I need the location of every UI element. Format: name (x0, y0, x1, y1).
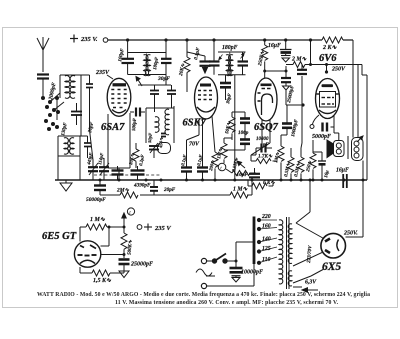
capacitor 25000pF (6E5) (123, 253, 126, 256)
transformer primary coil (279, 220, 283, 284)
T2 tuning arrows (219, 53, 245, 60)
resistor 500K (vertical) (121, 227, 127, 258)
svg-text:30pF: 30pF (157, 76, 170, 82)
mains wires (236, 242, 253, 268)
capacitor 100pF (diode) (232, 112, 250, 130)
tube 6SA7 (107, 78, 131, 116)
capacitor (antenna tuning) (81, 75, 93, 160)
ground (6E5) (119, 271, 129, 278)
T2 right capacitor (238, 62, 249, 66)
terminal circle B+ (103, 38, 108, 43)
svg-text:100p: 100p (238, 130, 249, 136)
svg-text:1.7K∿: 1.7K∿ (258, 154, 273, 160)
dashed gang line (94, 174, 160, 176)
band switch contacts (antenna) (41, 96, 60, 117)
svg-text:2 K∿: 2 K∿ (322, 45, 338, 51)
power transformer primary bar (253, 217, 256, 265)
resistor 250ohm (6V6 cathode) (310, 140, 316, 180)
svg-text:16μF: 16μF (336, 168, 349, 174)
svg-text:6X5: 6X5 (322, 261, 341, 273)
AC symbol (196, 269, 215, 276)
svg-text:2 M∿: 2 M∿ (291, 57, 307, 63)
band switch contacts (osc) (44, 119, 59, 131)
capacitor 2000pF (antenna) (37, 75, 49, 97)
svg-text:10000: 10000 (256, 137, 269, 142)
svg-text:6SA7: 6SA7 (101, 122, 125, 133)
capacitor 20pF (AVC) (150, 180, 158, 195)
mains terminal 2 (201, 283, 206, 288)
wire: B+ top bus (108, 39, 353, 41)
svg-text:WATT RADIO - Mod. 50 e W/50 AR: WATT RADIO - Mod. 50 e W/50 ARGO - Medio… (37, 292, 370, 298)
svg-text:1 M∿: 1 M∿ (233, 187, 248, 193)
svg-text:110: 110 (262, 257, 270, 263)
mains switch (201, 258, 206, 263)
6E5 wires (80, 227, 124, 273)
volume pot circled t (218, 163, 226, 171)
T1 right capacitor (161, 59, 172, 63)
capacitor 16pF (on bus) (249, 168, 260, 177)
svg-text:4390pF: 4390pF (133, 183, 151, 189)
terminal 235V (6E5) (137, 225, 142, 230)
resistor 6K (248, 180, 273, 189)
svg-text:11 V. Massima tensione anodica: 11 V. Massima tensione anodica 260 V. Co… (115, 300, 339, 306)
capacitor 500pF (osc grid) (130, 108, 145, 117)
oscillator coil L2 (58, 136, 80, 180)
capacitor 10000pF (line filter) (230, 268, 243, 282)
transformer core (286, 217, 288, 289)
svg-text:6V6: 6V6 (319, 53, 337, 64)
wire: AVC bus (100, 180, 252, 195)
capacitor (detector 2nd) (224, 130, 250, 150)
resistor 250K (vertical) (262, 40, 268, 78)
wires transformer to 6X5 (293, 180, 323, 287)
6SA7 pin box (108, 113, 130, 180)
resistor 0.5M b (298, 107, 304, 180)
resistor 1M (6V6 grid leak) (278, 135, 287, 180)
transformer HV secondary (288, 224, 292, 264)
svg-text:6E5 GT: 6E5 GT (42, 231, 77, 242)
svg-text:250V: 250V (331, 67, 346, 73)
svg-text:16pF: 16pF (237, 172, 249, 178)
svg-text:125: 125 (262, 246, 271, 252)
wires 6V6 node (302, 40, 327, 107)
svg-text:180pF: 180pF (222, 45, 238, 51)
output transformer (352, 138, 364, 161)
capacitor 16uF (cathode bypass) (313, 152, 326, 180)
svg-text:6 K∿: 6 K∿ (263, 180, 275, 186)
wire 6X5 cathode to bus (346, 180, 364, 237)
capacitor (6V6 grid) (297, 70, 307, 74)
resistor 20K (screen, vertical) (184, 40, 190, 92)
resistor 200ohm (6SK7 cathode) (212, 152, 218, 180)
svg-text:16μF: 16μF (268, 43, 281, 49)
capacitor 30pF (grid cap) (220, 75, 231, 100)
T2 left capacitor (209, 62, 220, 66)
speaker core line (347, 136, 349, 159)
antenna (37, 37, 49, 72)
resistor 1.5K (6E5 cathode) (92, 264, 124, 276)
tube 6SQ7 (255, 78, 277, 121)
volume pot track (226, 169, 256, 176)
capacitor (osc pad) (80, 136, 91, 158)
antenna coil L1 (60, 75, 81, 136)
capacitor 0.1uF (6SK7 cathode a) (181, 166, 192, 180)
resistor 50K (AVC) (229, 112, 235, 140)
capacitor (antenna padder mid) (71, 103, 82, 125)
tube 6V6 (316, 79, 340, 119)
transformer taps (257, 218, 261, 265)
osc trimmer (149, 143, 159, 158)
tube 6E5 GT (74, 241, 100, 267)
svg-text:5000pF: 5000pF (312, 134, 331, 140)
capacitor 25000pF (6SQ7 plate) (281, 71, 303, 105)
trimmer capacitor 114pF (99, 158, 109, 180)
oscillator coil assembly (146, 106, 174, 143)
right side verticals (353, 40, 367, 180)
6.3V arrow (302, 288, 318, 293)
svg-text:235 V: 235 V (154, 225, 171, 232)
resistor 1M (AVC vert) (221, 138, 232, 163)
svg-text:250V.: 250V. (343, 231, 358, 237)
svg-text:160: 160 (262, 224, 271, 230)
T2 coils (226, 52, 233, 76)
svg-text:50pF: 50pF (147, 133, 153, 143)
loudspeaker (327, 133, 344, 158)
tube 6X5 (321, 233, 346, 258)
caption text (37, 292, 370, 306)
svg-text:235 V.: 235 V. (80, 36, 98, 43)
resistor 20K (osc) (133, 143, 139, 168)
resistor 2K (plate load on bus) (322, 37, 343, 43)
capacitor 50000pF (94, 180, 106, 192)
trimmer capacitor 443pF (88, 160, 98, 180)
T1 coils (144, 55, 151, 76)
T1 left capacitor (100pF) (122, 59, 135, 63)
capacitor 0.1uF (6SK7 cathode b) (197, 166, 208, 180)
osc section oval (158, 143, 171, 154)
tube 6SK7 (195, 77, 218, 119)
svg-text:1,5 K∿: 1,5 K∿ (93, 278, 112, 284)
6SK7 pin wires (187, 116, 216, 166)
svg-text:6,3V: 6,3V (305, 280, 317, 286)
arrow (grid) (136, 77, 142, 87)
svg-text:50000pF: 50000pF (86, 197, 106, 203)
svg-text:1 M∿: 1 M∿ (90, 217, 106, 223)
capacitor 5000pF (323, 123, 328, 132)
bus capacitor bank (left) (112, 166, 145, 180)
svg-text:10000pF: 10000pF (241, 270, 263, 276)
junction dots (buses) (99, 38, 365, 181)
resistor 1.7K (251, 155, 277, 164)
transformer filament winding (288, 271, 292, 286)
wire 6SQ7 plate to 2M node (265, 66, 286, 77)
svg-text:20pF: 20pF (163, 187, 176, 193)
6V6 pins (313, 115, 335, 133)
label +235V (top) (70, 35, 78, 43)
svg-text:140: 140 (262, 237, 271, 243)
capacitor 0.1uF (screen bypass) (187, 52, 211, 68)
6SQ7 pin wires (251, 119, 270, 155)
svg-text:70V: 70V (189, 142, 200, 148)
arrow up + circled t (6E5) (122, 213, 126, 227)
svg-text:6SQ7: 6SQ7 (254, 122, 279, 133)
svg-text:25000pF: 25000pF (130, 262, 153, 268)
resistor 0.5M a (288, 148, 294, 180)
svg-text:220: 220 (261, 214, 271, 220)
capacitor 10000pF (tone) (282, 105, 292, 135)
ground (left) (60, 180, 72, 191)
wire: ground bus (55, 179, 367, 181)
